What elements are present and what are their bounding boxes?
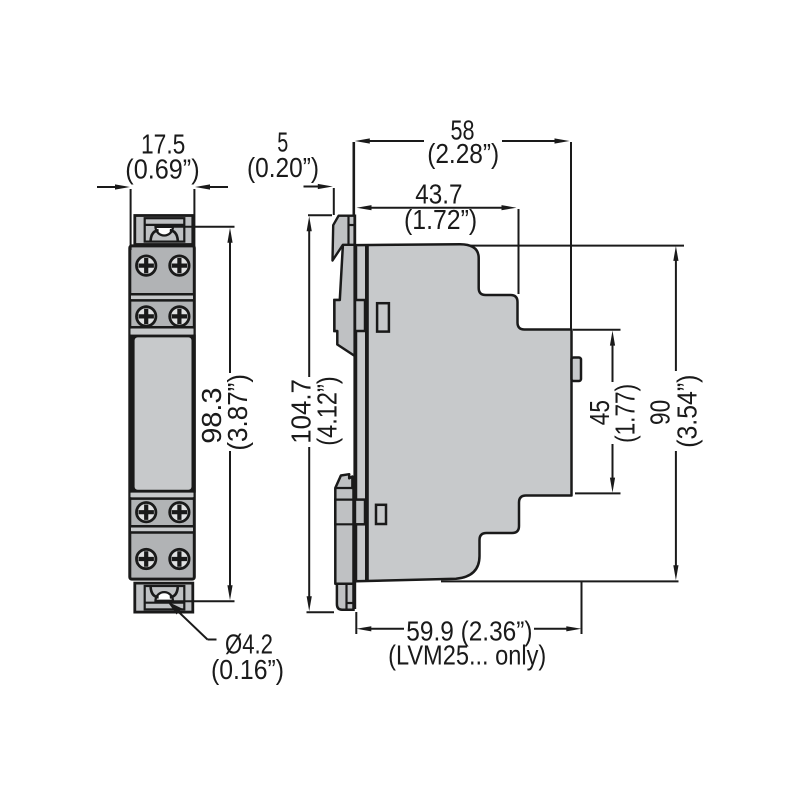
DIN clip plate edge line [353,215,356,610]
screw terminal row 4 [137,549,190,568]
arrowheads [115,138,679,631]
dim 90 lines [675,260,677,371]
dim 59.9 lines [370,628,404,630]
dim 58 lines [368,140,424,142]
dim 43.7 lines [371,207,503,209]
lower slot on side body [376,505,386,524]
svg-text:(2.28”): (2.28”) [427,138,499,169]
side body outline [344,244,572,581]
58 [355,138,370,143]
98.3 [227,228,232,243]
side body front thick edge [365,246,369,581]
bottom mounting cap [135,583,193,612]
front face panel [129,335,196,493]
main front body [130,246,195,579]
svg-text:(0.20”): (0.20”) [247,152,319,183]
dim 17.5 lines [97,186,116,188]
leader arrow [168,602,183,615]
upper DIN clip foot [333,216,355,356]
dim 98.3 lines [167,226,235,228]
5 [318,184,333,189]
screw terminal row 1 [137,256,190,275]
svg-text:(0.16”): (0.16”) [211,654,284,685]
svg-text:(1.77): (1.77) [610,384,641,443]
top mounting cap [135,216,193,245]
104.7 [307,216,312,231]
90 [673,246,678,261]
bezel strip below panel [129,493,196,499]
43.7 [357,205,372,210]
rail channel middle block lower [335,500,365,525]
59.9 [356,626,371,631]
bezel strip above panel [129,327,196,334]
screw terminal row 2 [137,307,190,326]
svg-text:(LVM25... only): (LVM25... only) [388,640,546,671]
dim 5 lines [304,186,321,188]
divider row3/row4 [129,526,196,532]
dim 104.7 lines [308,229,310,377]
dim 45 lines [612,343,614,382]
leader dia 4.2 [170,604,208,640]
divider row1/row2 [129,294,196,300]
svg-text:(1.72”): (1.72”) [404,204,477,235]
upper slot on side body [377,303,389,331]
svg-text:(3.54”): (3.54”) [671,375,702,448]
lower DIN clip foot [335,474,353,584]
45 [610,331,615,346]
right connector tab [572,358,582,382]
17.5 [115,184,130,189]
lower foot bottom tab [337,584,354,610]
svg-text:(4.12”): (4.12”) [312,376,343,445]
screw terminal row 3 [137,503,190,522]
rail channel middle block upper [334,300,365,331]
svg-text:(0.69”): (0.69”) [125,154,199,185]
svg-text:(3.87”): (3.87”) [222,374,253,451]
